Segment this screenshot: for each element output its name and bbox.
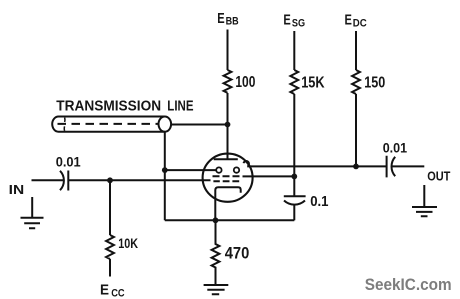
resistor 10K <box>106 235 114 259</box>
wire input cap to grid <box>68 179 210 181</box>
tube control grid dashes <box>213 180 239 182</box>
wire screen grid to node <box>243 175 295 177</box>
wire left rail (shield) down <box>164 132 166 221</box>
node: transmission line / E_BB junction <box>225 122 231 128</box>
svg-text:150: 150 <box>364 74 385 91</box>
label 15K <box>301 75 325 92</box>
svg-text:E: E <box>283 12 291 28</box>
tube envelope U1 <box>203 154 253 202</box>
wire E_SG to screen-grid node <box>293 94 295 196</box>
svg-text:IN: IN <box>9 183 25 197</box>
wire IN to input cap <box>32 179 65 181</box>
capacitor 0.1 <box>284 196 306 204</box>
label 100 <box>235 74 255 91</box>
transmission line body <box>52 117 165 132</box>
svg-text:OUT: OUT <box>427 169 450 183</box>
svg-text:0.01: 0.01 <box>56 154 81 170</box>
wire 0.1 to bottom rail <box>293 204 295 220</box>
resistor 150 <box>352 70 360 94</box>
transmission line left rim dashes <box>63 118 66 131</box>
svg-text:CC: CC <box>111 288 125 299</box>
wire output cap to OUT <box>392 165 425 167</box>
transmission line right end ellipse <box>159 117 172 132</box>
label TRANSMISSION LINE <box>56 98 193 115</box>
svg-text:100: 100 <box>235 74 255 91</box>
svg-text:BB: BB <box>226 16 239 28</box>
resistor 100 <box>224 70 232 93</box>
wire E_BB drop <box>227 30 229 71</box>
tube cathode <box>215 187 240 220</box>
svg-text:SeekIC.com: SeekIC.com <box>365 275 452 294</box>
svg-text:E: E <box>100 282 109 298</box>
tube plate bar <box>214 158 238 160</box>
label IN <box>9 183 25 197</box>
label OUT <box>427 169 450 183</box>
tube output hook electrode <box>244 161 249 166</box>
node: cathode / bottom rail junction <box>213 217 219 223</box>
svg-text:470: 470 <box>225 244 250 262</box>
node: screen grid / 15K / 0.1 junction <box>291 174 297 180</box>
wire E_DC to output line <box>355 94 357 166</box>
supply label E_BB <box>217 11 239 28</box>
svg-text:E: E <box>217 11 225 27</box>
supply label E_CC <box>100 282 125 299</box>
svg-text:TRANSMISSION: TRANSMISSION <box>56 98 161 115</box>
node: rail / suppressor junction <box>162 167 168 173</box>
svg-text:LINE: LINE <box>167 98 193 115</box>
wire E_BB to plate <box>227 93 229 159</box>
wire bottom rail <box>165 219 294 221</box>
svg-text:DC: DC <box>353 17 367 29</box>
svg-text:15K: 15K <box>301 75 325 92</box>
wire output line <box>247 165 386 167</box>
label 10K <box>118 236 138 251</box>
resistor 470 <box>212 220 220 284</box>
capacitor 0.01 input <box>60 171 68 191</box>
tube suppressor circles <box>216 167 221 172</box>
wire E_SG drop <box>293 31 295 70</box>
node: E_DC / output junction <box>353 164 359 170</box>
label 0.1 <box>310 193 328 210</box>
svg-text:SG: SG <box>292 18 305 30</box>
wire 10K drop <box>109 180 111 235</box>
resistor 15K <box>290 70 298 94</box>
label 470 <box>225 244 250 262</box>
wire 10K to E_CC <box>109 259 111 277</box>
label 150 <box>364 74 385 91</box>
wire transmission line to E_BB node <box>171 124 227 126</box>
label 0.01 output <box>383 139 408 155</box>
svg-text:0.1: 0.1 <box>310 193 328 210</box>
capacitor 0.01 output <box>387 156 396 178</box>
ground at output <box>412 185 437 216</box>
wire E_DC drop <box>355 31 357 70</box>
wire suppressor lead <box>165 169 217 171</box>
supply label E_DC <box>345 12 368 29</box>
ground at cathode <box>204 285 229 294</box>
svg-text:E: E <box>345 12 353 28</box>
tube screen grid dashes <box>213 175 240 177</box>
node: input / 10K junction <box>107 177 113 183</box>
svg-text:0.01: 0.01 <box>383 139 408 155</box>
transmission line inner dashed center conductor <box>58 123 159 125</box>
ground at input <box>21 197 44 228</box>
svg-text:10K: 10K <box>118 236 138 251</box>
supply label E_SG <box>283 12 305 29</box>
label 0.01 input <box>56 154 81 170</box>
